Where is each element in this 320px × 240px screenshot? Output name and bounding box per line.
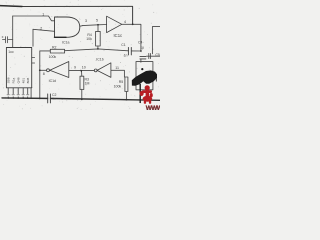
- svg-text:100k: 100k: [49, 55, 57, 59]
- svg-text:1u: 1u: [52, 97, 56, 101]
- svg-text:8: 8: [43, 72, 45, 76]
- svg-text:IC1d: IC1d: [49, 79, 56, 83]
- svg-text:C5: C5: [155, 53, 160, 57]
- svg-text:10k: 10k: [86, 37, 92, 41]
- svg-text:R1a: R1a: [12, 77, 16, 83]
- svg-text:2: 2: [40, 26, 42, 30]
- svg-text:1oo: 1oo: [8, 50, 14, 54]
- svg-text:8R8: 8R8: [26, 77, 30, 83]
- svg-text:SB8: SB8: [7, 77, 11, 83]
- svg-text:IC1c: IC1c: [114, 33, 123, 38]
- svg-text:9: 9: [74, 65, 76, 69]
- svg-text:1n: 1n: [124, 54, 128, 58]
- svg-text:5: 5: [96, 19, 98, 23]
- svg-text:IC1a: IC1a: [62, 40, 69, 44]
- svg-text:1M: 1M: [85, 82, 90, 86]
- svg-text:3: 3: [85, 19, 87, 23]
- svg-text:4: 4: [124, 20, 126, 24]
- svg-text:11: 11: [115, 66, 119, 70]
- svg-text:100k: 100k: [114, 84, 122, 88]
- svg-text:1: 1: [42, 13, 44, 17]
- svg-text:4B1: 4B1: [22, 78, 26, 84]
- svg-text:Q48: Q48: [17, 77, 21, 83]
- svg-text:10: 10: [82, 65, 86, 69]
- svg-text:WWW: WWW: [146, 105, 160, 110]
- svg-text:C4: C4: [138, 41, 143, 45]
- svg-text:IC1b: IC1b: [96, 57, 103, 61]
- svg-text:R2: R2: [52, 45, 57, 49]
- svg-text:C1: C1: [121, 43, 126, 47]
- svg-text:1μ: 1μ: [140, 46, 144, 50]
